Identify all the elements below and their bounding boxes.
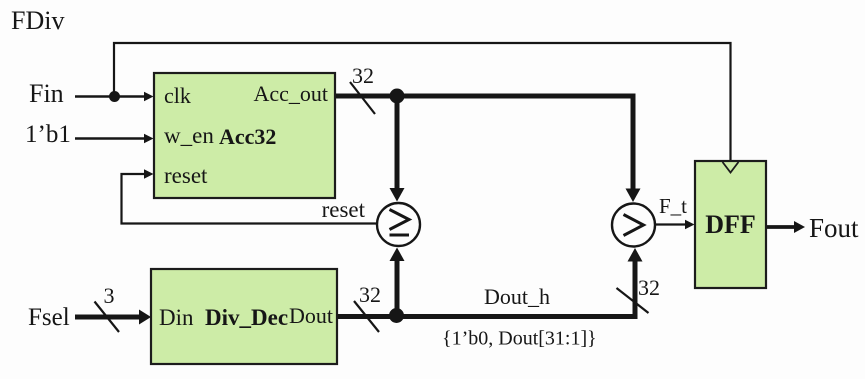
svg-text:FDiv: FDiv (11, 6, 64, 35)
svg-text:32: 32 (638, 275, 660, 300)
svg-text:F_t: F_t (659, 194, 687, 218)
svg-text:Fout: Fout (809, 213, 859, 243)
svg-text:32: 32 (359, 282, 381, 307)
svg-text:reset: reset (322, 197, 366, 222)
svg-text:Acc32: Acc32 (219, 124, 276, 149)
svg-text:3: 3 (104, 283, 115, 308)
svg-text:{1’b0, Dout[31:1]}: {1’b0, Dout[31:1]} (442, 328, 597, 350)
svg-text:Acc_out: Acc_out (253, 81, 328, 106)
svg-text:reset: reset (164, 163, 208, 188)
svg-text:1’b1: 1’b1 (25, 121, 71, 148)
svg-text:Dout: Dout (289, 303, 333, 328)
svg-text:Fsel: Fsel (28, 304, 70, 331)
svg-text:Dout_h: Dout_h (484, 284, 550, 309)
svg-text:w_en: w_en (164, 123, 214, 148)
svg-text:32: 32 (352, 63, 374, 88)
svg-text:Din: Din (159, 305, 194, 330)
svg-text:Div_Dec: Div_Dec (205, 305, 288, 330)
svg-text:clk: clk (164, 83, 191, 108)
svg-text:Fin: Fin (29, 79, 64, 108)
svg-text:DFF: DFF (705, 210, 756, 239)
